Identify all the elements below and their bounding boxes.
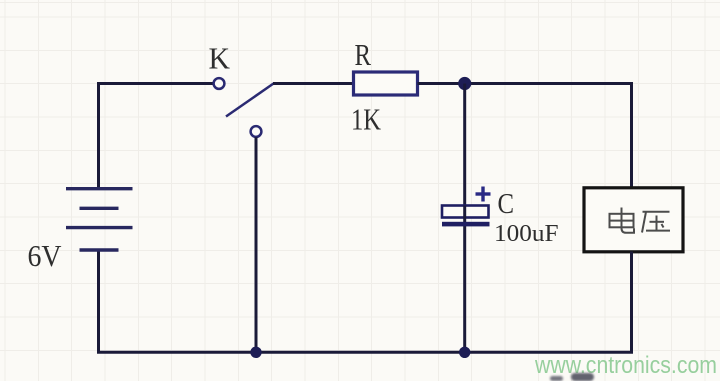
switch K contact circle lower [251, 126, 262, 137]
svg-text:100uF: 100uF [494, 220, 559, 247]
resistor R body [354, 72, 418, 95]
battery B1 plate long [66, 226, 133, 229]
wire: top-right corner down to voltmeter box [632, 84, 634, 189]
switch K lever [226, 84, 274, 117]
node junction dot bottom right (cap branch) [459, 347, 470, 358]
capacitor C negative plate (bar) [442, 222, 490, 227]
battery B1 plate short [80, 207, 119, 210]
cut-off dark marks at bottom edge [550, 376, 563, 381]
capacitor C positive plate (box) [442, 206, 489, 218]
wire: voltmeter box down to bottom-right corner [630, 252, 633, 352]
battery B1 plate long top [66, 187, 133, 190]
label 电压 (hand-drawn glyphs) [610, 208, 671, 233]
svg-text:6V: 6V [28, 238, 63, 273]
wire: battery bottom to lower-left corner [97, 250, 100, 351]
svg-text:R: R [355, 37, 372, 72]
svg-text:C: C [498, 188, 515, 220]
node junction dot bottom left (switch branch) [250, 347, 261, 358]
wire: left branch top (corner at 98,83 up-right from battery) [99, 84, 214, 189]
wire: switch to resistor [273, 82, 355, 85]
svg-text:www.cntronics.com: www.cntronics.com [534, 352, 717, 379]
wire: junction down to capacitor [463, 84, 466, 207]
wire: resistor to top-right corner [418, 82, 634, 85]
battery B1 plate short bottom [80, 248, 119, 251]
wire: capacitor down to bottom rail [463, 226, 466, 351]
wire: through capacitor plates [463, 206, 466, 227]
capacitor C plus sign [476, 187, 491, 202]
wire: bottom rail [99, 351, 632, 352]
switch K contact circle left [214, 78, 225, 89]
wire: switch lower contact down to bottom rail [255, 137, 258, 351]
node junction dot top (cap tap) [458, 77, 471, 90]
svg-text:K: K [209, 41, 231, 76]
svg-text:1K: 1K [351, 101, 381, 136]
压 [643, 211, 670, 213]
voltmeter box U1 [584, 188, 683, 252]
电 [622, 208, 635, 233]
